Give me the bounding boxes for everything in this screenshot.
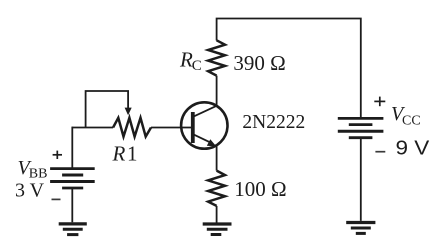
svg-text:3 V: 3 V xyxy=(15,179,45,201)
wire top rail xyxy=(217,19,361,118)
svg-text:9 V: 9 V xyxy=(396,137,431,159)
resistor RE 100 ohm xyxy=(208,171,225,206)
battery VCC xyxy=(338,118,384,137)
svg-text:390 Ω: 390 Ω xyxy=(233,51,285,75)
ground left xyxy=(59,224,87,235)
resistor RC 390 ohm xyxy=(208,40,225,75)
wire collector xyxy=(216,76,218,106)
svg-text:2N2222: 2N2222 xyxy=(242,112,305,133)
wire VBB top xyxy=(71,127,73,168)
transistor base bar xyxy=(191,112,195,143)
plus sign VBB xyxy=(53,151,62,159)
svg-text:C: C xyxy=(192,58,202,74)
svg-text:1: 1 xyxy=(127,141,138,165)
wire emitter to ground xyxy=(216,206,218,223)
transistor emitter lead with arrow xyxy=(194,134,211,142)
wire base xyxy=(72,127,113,129)
transistor Q1 2N2222 circle xyxy=(181,102,227,148)
wire emitter xyxy=(216,146,218,171)
svg-text:100 Ω: 100 Ω xyxy=(234,177,286,201)
transistor collector lead xyxy=(194,106,217,117)
plus sign VCC xyxy=(374,97,385,107)
minus sign VBB xyxy=(52,198,61,200)
minus sign VCC xyxy=(375,151,385,153)
svg-text:CC: CC xyxy=(402,114,421,129)
wiper loop wire xyxy=(86,91,129,128)
wiper arrow head xyxy=(125,108,132,116)
svg-text:R: R xyxy=(112,141,126,165)
battery VBB xyxy=(50,169,95,188)
ground right xyxy=(346,223,375,234)
ground middle xyxy=(203,224,232,235)
wire R1 to base xyxy=(151,127,191,129)
wire VCC to ground xyxy=(360,139,362,221)
wire VBB to ground xyxy=(71,188,73,222)
resistor R1 xyxy=(113,118,151,137)
